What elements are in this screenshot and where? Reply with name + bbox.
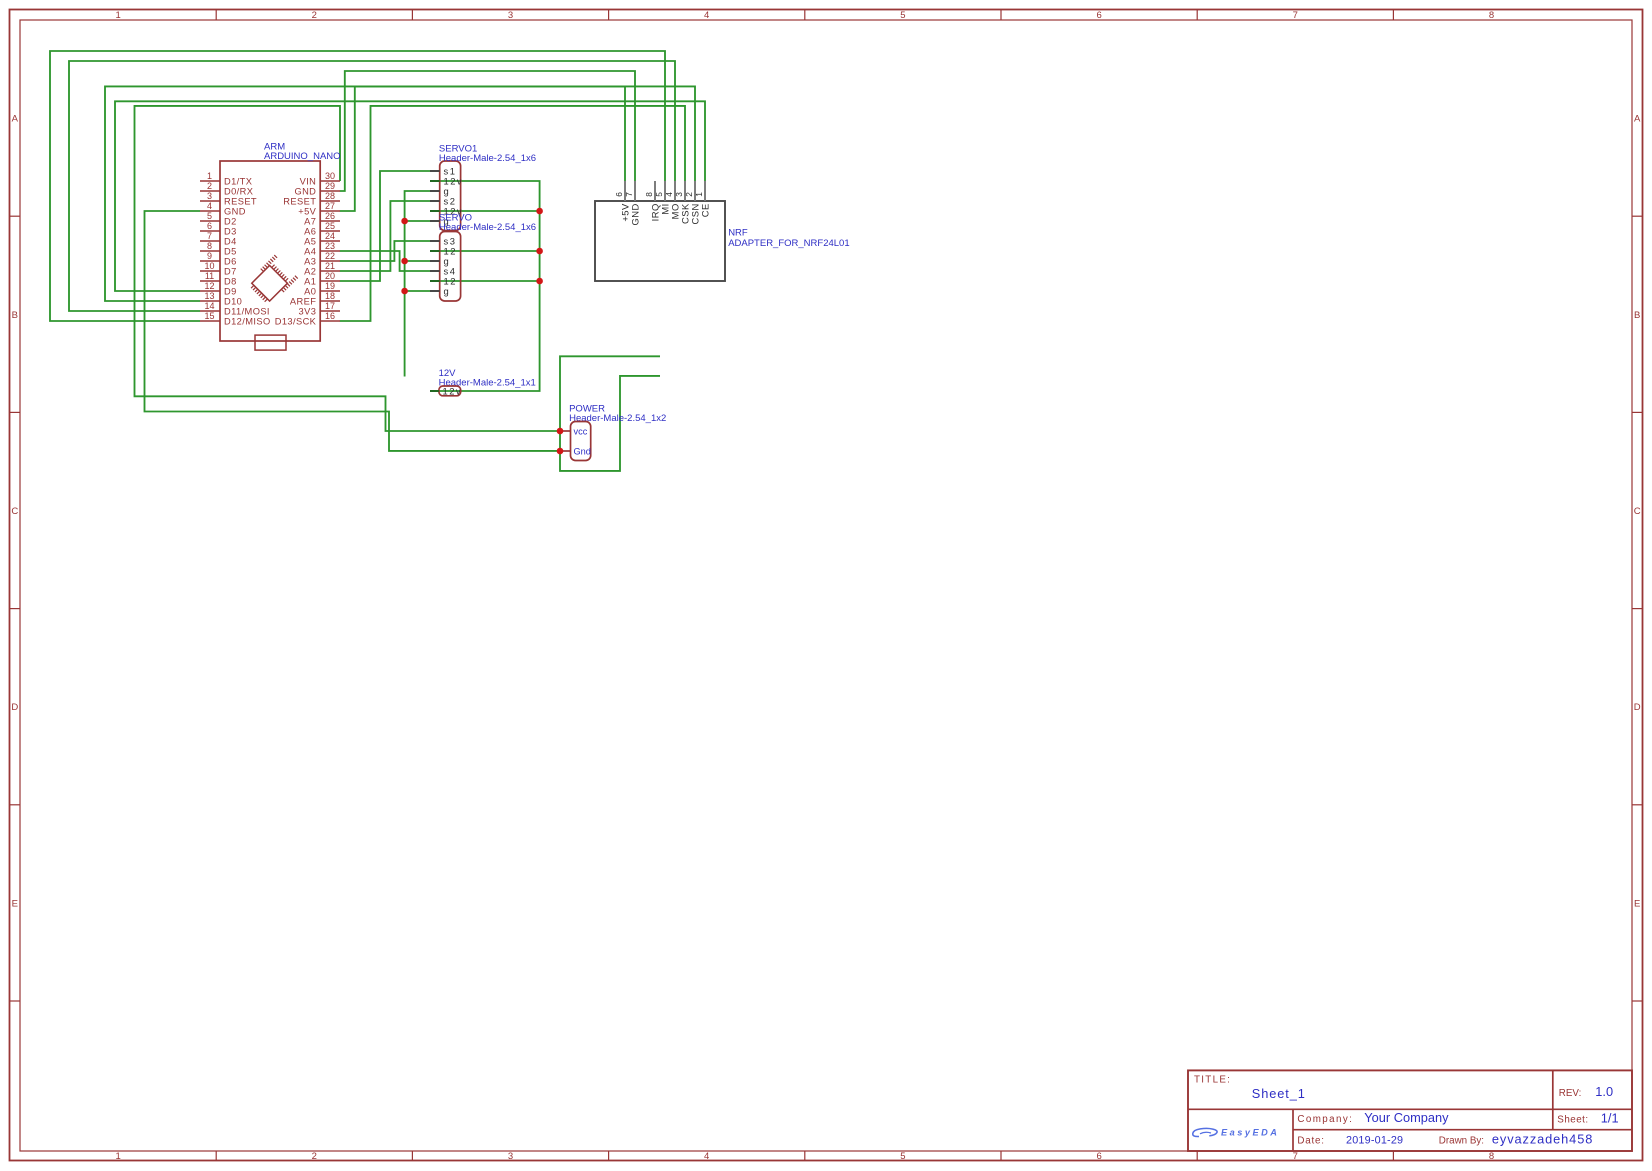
arduino pin 7 stub (D4) [200, 240, 220, 242]
arduino pin 2 stub (D0/RX) [200, 190, 220, 192]
svg-text:D13/SCK: D13/SCK [275, 316, 317, 326]
wire ground bus g net [405, 191, 430, 377]
svg-text:g: g [444, 286, 451, 297]
svg-text:D1/TX: D1/TX [224, 176, 252, 186]
svg-text:Company:: Company: [1297, 1114, 1353, 1125]
svg-text:D2: D2 [224, 216, 237, 226]
svg-text:A4: A4 [304, 246, 316, 256]
svg-text:13: 13 [204, 291, 214, 301]
svg-text:4: 4 [704, 1151, 709, 1162]
svg-text:A2: A2 [304, 266, 316, 276]
wire A3 to SERVO s3 [340, 241, 430, 261]
svg-text:8: 8 [1489, 1151, 1494, 1162]
NRF pin 6 stub (+5V) [624, 181, 626, 201]
svg-text:7: 7 [1293, 1151, 1298, 1162]
wire GND pin29 to NRF GND [340, 71, 635, 191]
wire D13/SCK to NRF CSK [340, 106, 685, 321]
arduino U1 crystal rectangle at bottom edge [255, 335, 286, 350]
svg-text:ADAPTER_FOR_NRF24L01: ADAPTER_FOR_NRF24L01 [728, 238, 849, 249]
svg-text:22: 22 [325, 251, 335, 261]
svg-text:21: 21 [325, 261, 335, 271]
arduino pin 8 stub (D5) [200, 250, 220, 252]
svg-text:25: 25 [325, 221, 335, 231]
SERVO pin 5 stub (12) [430, 280, 440, 282]
svg-text:A5: A5 [304, 236, 316, 246]
wire +5V to NRF +5V [340, 86, 625, 211]
svg-text:D9: D9 [224, 286, 237, 296]
frame column tick bottom 5 [1000, 1151, 1002, 1161]
svg-text:6: 6 [207, 221, 212, 231]
svg-text:3: 3 [207, 191, 212, 201]
svg-text:7: 7 [1293, 10, 1298, 21]
wire SERVO1 12v2 to 12v bus [430, 210, 540, 212]
arduino pin 30 stub (VIN) [320, 180, 340, 182]
frame column tick top 1 [215, 10, 217, 20]
svg-text:A: A [12, 114, 19, 125]
svg-text:2: 2 [312, 1151, 317, 1162]
svg-text:D5: D5 [224, 246, 237, 256]
svg-text:Sheet:: Sheet: [1557, 1115, 1588, 1126]
svg-text:RESET: RESET [224, 196, 257, 206]
junction g bus / SERVO1 g2 [401, 218, 408, 225]
wire GND pin4 to POWER Gnd [145, 211, 561, 451]
wire SERVO 12-1 to 12v bus [430, 250, 540, 252]
svg-text:CE: CE [699, 203, 710, 217]
title block divider under TITLE row [1188, 1108, 1632, 1110]
svg-text:12v: 12v [443, 386, 463, 397]
arduino pin 5 stub (D2) [200, 220, 220, 222]
svg-text:A3: A3 [304, 256, 316, 266]
svg-text:2: 2 [207, 181, 212, 191]
frame column tick top 3 [608, 10, 610, 20]
SERVO1 pin 4 stub (s2) [430, 200, 440, 202]
SERVO pin 3 stub (g) [430, 260, 440, 262]
arduino pin 15 stub (D12/MISO) [200, 320, 220, 322]
SERVO1 pin 6 stub (g) [430, 220, 440, 222]
svg-text:4: 4 [704, 10, 709, 21]
svg-text:8: 8 [644, 192, 654, 197]
frame column tick bottom 3 [608, 1151, 610, 1161]
junction POWER vcc node [557, 428, 564, 435]
wire A2 to SERVO1 s2 [340, 201, 430, 271]
junction 12v bus / SERVO1 12v2 [536, 208, 543, 215]
svg-text:D: D [11, 702, 18, 713]
svg-text:D6: D6 [224, 256, 237, 266]
svg-text:D3: D3 [224, 226, 237, 236]
header SERVO Header-Male-2.54_1x6 body [440, 232, 461, 302]
frame row tick right B [1632, 411, 1642, 413]
SERVO pin 2 stub (12) [430, 250, 440, 252]
junction g bus / SERVO g2 [401, 288, 408, 295]
svg-text:3V3: 3V3 [299, 306, 317, 316]
SERVO pin 1 stub (s3) [430, 240, 440, 242]
arduino pin 3 stub (RESET) [200, 200, 220, 202]
svg-text:D8: D8 [224, 276, 237, 286]
wire 12v bus net [430, 181, 540, 391]
wire g bus to SERVO1 g2 [405, 220, 430, 222]
frame row tick right E [1632, 1000, 1642, 1002]
svg-text:15: 15 [204, 311, 214, 321]
svg-text:3: 3 [508, 10, 513, 21]
svg-text:26: 26 [325, 211, 335, 221]
SERVO1 pin 5 stub (12v) [430, 210, 440, 212]
svg-text:2: 2 [312, 10, 317, 21]
svg-text:D11/MOSI: D11/MOSI [224, 306, 270, 316]
svg-text:Header-Male-2.54_1x6: Header-Male-2.54_1x6 [439, 222, 536, 233]
svg-text:4: 4 [664, 192, 674, 197]
frame row tick left B [10, 411, 20, 413]
svg-text:D10: D10 [224, 296, 242, 306]
wire g bus to SERVO g2 [405, 290, 430, 292]
svg-text:24: 24 [325, 231, 335, 241]
frame column tick bottom 2 [411, 1151, 413, 1161]
wire D12/MISO to NRF MI [50, 51, 665, 321]
svg-text:1/1: 1/1 [1601, 1111, 1619, 1126]
frame column tick bottom 4 [804, 1151, 806, 1161]
svg-text:A6: A6 [304, 226, 316, 236]
SERVO pin 4 stub (s4) [430, 270, 440, 272]
12V pin stub (12v) [430, 390, 439, 392]
arduino pin 14 stub (D11/MOSI) [200, 310, 220, 312]
svg-text:C: C [11, 506, 18, 517]
NRF pin 7 stub (GND) [634, 181, 636, 201]
arduino pin 29 stub (GND) [320, 190, 340, 192]
svg-text:5: 5 [207, 211, 212, 221]
junction 12v bus / SERVO 12-1 [536, 248, 543, 255]
junction 12v bus / SERVO 12-2 [536, 278, 543, 285]
frame column tick top 4 [804, 10, 806, 20]
svg-text:11: 11 [205, 271, 214, 281]
svg-text:A: A [1634, 114, 1641, 125]
arduino pin 23 stub (A4) [320, 250, 340, 252]
svg-text:B: B [12, 310, 18, 321]
frame column tick top 5 [1000, 10, 1002, 20]
NRF pin 3 stub (CSK) [684, 181, 686, 201]
title block divider under Company row [1293, 1129, 1632, 1131]
svg-text:27: 27 [325, 201, 335, 211]
arduino pin 6 stub (D3) [200, 230, 220, 232]
arduino pin 4 stub (GND) [200, 210, 220, 212]
frame column tick bottom 1 [215, 1151, 217, 1161]
arduino pin 10 stub (D7) [200, 270, 220, 272]
svg-text:D0/RX: D0/RX [224, 186, 253, 196]
svg-text:D4: D4 [224, 236, 237, 246]
wire A4 to SERVO s4 [340, 251, 430, 271]
svg-text:28: 28 [325, 191, 335, 201]
svg-text:7: 7 [624, 192, 634, 197]
NRF pin 8 stub (IRQ) [654, 181, 656, 201]
svg-text:ARDUINO_NANO: ARDUINO_NANO [264, 151, 341, 162]
arduino pin 20 stub (A1) [320, 280, 340, 282]
wire D9 to NRF CE [115, 101, 705, 291]
svg-text:2019-01-29: 2019-01-29 [1346, 1134, 1403, 1146]
svg-text:VIN: VIN [300, 176, 317, 186]
svg-text:NRF: NRF [728, 227, 748, 238]
arduino pin 16 stub (D13/SCK) [320, 320, 340, 322]
svg-text:23: 23 [325, 241, 335, 251]
svg-text:1: 1 [115, 10, 120, 21]
svg-text:GND: GND [224, 206, 246, 216]
SERVO1 pin 1 stub (s1) [430, 170, 440, 172]
svg-text:TITLE:: TITLE: [1194, 1075, 1231, 1086]
arduino pin 11 stub (D8) [200, 280, 220, 282]
svg-text:29: 29 [325, 181, 335, 191]
arduino pin 13 stub (D10) [200, 300, 220, 302]
svg-text:Your Company: Your Company [1364, 1110, 1449, 1125]
svg-text:Header-Male-2.54_1x6: Header-Male-2.54_1x6 [439, 153, 536, 164]
svg-text:14: 14 [204, 301, 214, 311]
svg-text:8: 8 [1489, 10, 1494, 21]
svg-text:D12/MISO: D12/MISO [224, 316, 271, 326]
arduino pin 27 stub (+5V) [320, 210, 340, 212]
title block divider REV column [1552, 1070, 1554, 1129]
svg-text:A1: A1 [304, 276, 316, 286]
svg-text:8: 8 [207, 241, 212, 251]
svg-text:D: D [1634, 702, 1641, 713]
svg-text:Date:: Date: [1297, 1135, 1324, 1146]
NRF ADAPTER_FOR_NRF24L01 body [595, 201, 725, 281]
svg-text:6: 6 [614, 192, 624, 197]
svg-text:EasyEDA: EasyEDA [1221, 1128, 1279, 1138]
svg-text:E: E [12, 898, 18, 909]
arduino pin 17 stub (3V3) [320, 310, 340, 312]
svg-text:6: 6 [1096, 1151, 1101, 1162]
svg-text:4: 4 [207, 201, 212, 211]
svg-text:19: 19 [325, 281, 335, 291]
title block divider logo column [1292, 1109, 1294, 1150]
svg-text:3: 3 [674, 192, 684, 197]
wire A1 to SERVO1 s1 [340, 171, 430, 281]
arduino pin 24 stub (A5) [320, 240, 340, 242]
arduino U1 ARM ARDUINO_NANO body [220, 161, 320, 341]
svg-text:A0: A0 [304, 286, 316, 296]
frame row tick left C [10, 608, 20, 610]
svg-text:A7: A7 [304, 216, 316, 226]
svg-text:RESET: RESET [283, 196, 316, 206]
svg-text:Sheet_1: Sheet_1 [1252, 1086, 1306, 1101]
NRF pin 5 stub (MI) [664, 181, 666, 201]
svg-text:5: 5 [900, 1151, 905, 1162]
arduino pin 12 stub (D9) [200, 290, 220, 292]
frame column tick top 7 [1392, 10, 1394, 20]
arduino pin 19 stub (A0) [320, 290, 340, 292]
svg-text:17: 17 [325, 301, 335, 311]
frame row tick left D [10, 804, 20, 806]
arduino pin 26 stub (A7) [320, 220, 340, 222]
svg-text:1: 1 [694, 192, 704, 197]
svg-text:GND: GND [629, 203, 640, 225]
svg-text:E: E [1634, 898, 1640, 909]
junction POWER Gnd node [557, 448, 564, 455]
POWER pin 2 stub (Gnd) [560, 450, 571, 452]
EasyEDA logo [1193, 1128, 1217, 1136]
svg-text:+5V: +5V [298, 206, 316, 216]
wire POWER right loop [560, 356, 660, 471]
svg-text:20: 20 [325, 271, 335, 281]
svg-text:7: 7 [207, 231, 212, 241]
frame column tick top 2 [411, 10, 413, 20]
wire VIN to POWER vcc [135, 106, 561, 431]
frame column tick bottom 7 [1392, 1151, 1394, 1161]
svg-text:C: C [1634, 506, 1641, 517]
svg-text:1: 1 [207, 171, 212, 181]
header POWER Header-Male-2.54_1x2 body [571, 422, 591, 461]
svg-text:30: 30 [325, 171, 335, 181]
svg-text:B: B [1634, 310, 1640, 321]
SERVO pin 6 stub (g) [430, 290, 440, 292]
SERVO1 pin 2 stub (12v) [430, 180, 440, 182]
title block outline [1188, 1070, 1632, 1151]
arduino pin 25 stub (A6) [320, 230, 340, 232]
svg-text:16: 16 [325, 311, 335, 321]
svg-text:REV:: REV: [1559, 1088, 1582, 1099]
wire D11/MOSI to NRF MO [69, 61, 675, 311]
POWER pin 1 stub (vcc) [560, 430, 571, 432]
arduino pin 18 stub (AREF) [320, 300, 340, 302]
svg-text:1.0: 1.0 [1595, 1084, 1613, 1099]
svg-text:12: 12 [204, 281, 214, 291]
SERVO1 pin 3 stub (g) [430, 190, 440, 192]
arduino U1 IC chip symbol (rotated square with leads) [246, 255, 298, 307]
wire D10 to NRF CSN [105, 86, 695, 301]
svg-text:10: 10 [204, 261, 214, 271]
svg-text:5: 5 [654, 192, 664, 197]
svg-text:D7: D7 [224, 266, 237, 276]
svg-text:3: 3 [508, 1151, 513, 1162]
svg-text:GND: GND [294, 186, 316, 196]
wire SERVO 12-2 to 12v bus [430, 280, 540, 282]
svg-text:AREF: AREF [290, 296, 316, 306]
svg-text:Gnd: Gnd [574, 446, 591, 456]
frame row tick left E [10, 1000, 20, 1002]
frame row tick left A [10, 215, 20, 217]
header 12V Header-Male-2.54_1x1 body [439, 386, 461, 396]
junction g bus / SERVO g1 [401, 258, 408, 265]
svg-text:9: 9 [207, 251, 212, 261]
header SERVO1 Header-Male-2.54_1x6 body [440, 161, 461, 231]
svg-text:6: 6 [1096, 10, 1101, 21]
svg-text:eyvazzadeh458: eyvazzadeh458 [1492, 1131, 1593, 1146]
arduino pin 28 stub (RESET) [320, 200, 340, 202]
NRF pin 2 stub (CSN) [694, 181, 696, 201]
svg-text:5: 5 [900, 10, 905, 21]
svg-text:vcc: vcc [574, 426, 588, 436]
arduino pin 9 stub (D6) [200, 260, 220, 262]
arduino pin 22 stub (A3) [320, 260, 340, 262]
frame row tick right A [1632, 215, 1642, 217]
frame column tick bottom 6 [1196, 1151, 1198, 1161]
frame row tick right D [1632, 804, 1642, 806]
arduino pin 1 stub (D1/TX) [200, 180, 220, 182]
svg-text:Drawn By:: Drawn By: [1439, 1135, 1484, 1146]
arduino pin 21 stub (A2) [320, 270, 340, 272]
svg-text:1: 1 [115, 1151, 120, 1162]
svg-text:18: 18 [325, 291, 335, 301]
NRF pin 1 stub (CE) [704, 181, 706, 201]
wire g bus to SERVO g1 [405, 260, 430, 262]
svg-text:2: 2 [684, 192, 694, 197]
frame row tick right C [1632, 608, 1642, 610]
frame column tick top 6 [1196, 10, 1198, 20]
NRF pin 4 stub (MO) [674, 181, 676, 201]
